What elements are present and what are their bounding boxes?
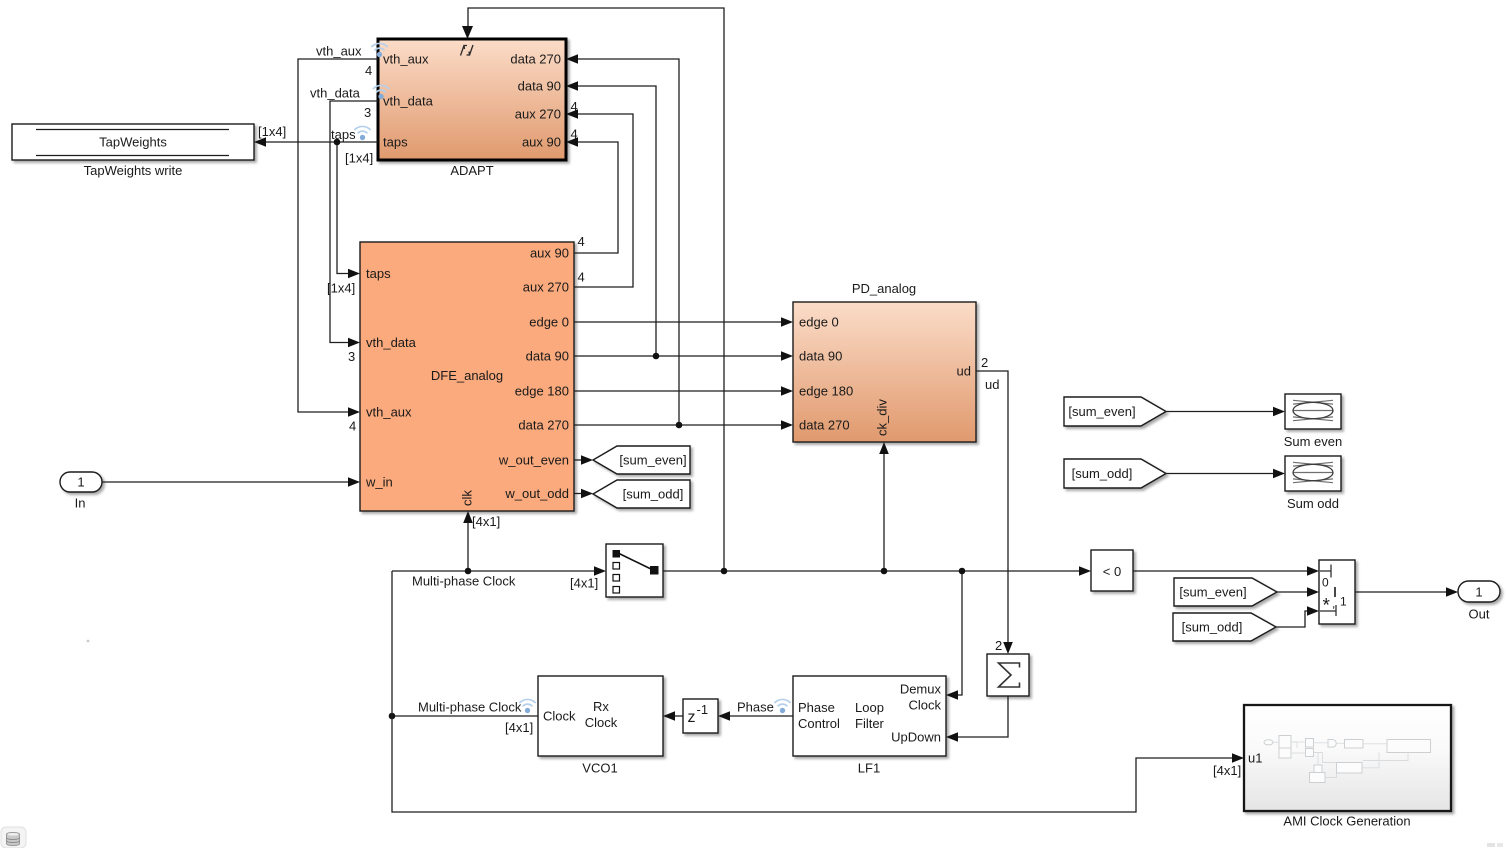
wire clk to DFE [463, 511, 473, 571]
svg-text:data 90: data 90 [526, 349, 569, 364]
svg-text:data 90: data 90 [799, 349, 842, 364]
scope Sum odd [1285, 456, 1341, 511]
wire ck_div to PD [879, 442, 889, 571]
svg-text:,: , [1332, 597, 1335, 611]
wire sum_odd to scope [1166, 469, 1285, 479]
label 4 at DFE aux 90 [578, 234, 585, 249]
svg-text:vth_data: vth_data [366, 335, 417, 350]
svg-text:data 90: data 90 [518, 79, 561, 94]
label 4 at ADAPT aux 90 [571, 127, 578, 142]
wire compare to multiport switch [1133, 566, 1319, 576]
svg-text:vth_data: vth_data [383, 94, 434, 109]
multiport switch block [1319, 560, 1355, 624]
junction clk-bus [465, 568, 472, 575]
label 2 at Sum input [995, 638, 1002, 653]
svg-text:aux 90: aux 90 [522, 135, 561, 150]
subsystem LF1 [793, 676, 946, 776]
label 3 near ADAPT [364, 105, 371, 120]
wire VCO1 clock output [392, 715, 538, 717]
svg-text:w_out_odd: w_out_odd [504, 486, 569, 501]
svg-text:[sum_odd]: [sum_odd] [623, 487, 684, 502]
svg-text:edge 180: edge 180 [515, 384, 569, 399]
svg-text:[1x4]: [1x4] [327, 281, 355, 296]
label Multi-phase Clock at bus [412, 574, 516, 589]
wire vth_data net [330, 101, 378, 347]
svg-text:3: 3 [348, 349, 355, 364]
svg-text:LF1: LF1 [858, 761, 880, 776]
svg-text:Clock: Clock [543, 709, 576, 724]
svg-text:1: 1 [1475, 585, 1482, 600]
svg-text:*: * [1323, 596, 1331, 617]
wire data 90 DFE to PD and ADAPT [566, 81, 793, 361]
subsystem VCO1 [538, 676, 663, 776]
label [4x1] at VCO1 output [505, 720, 533, 735]
hidden content badge (data store icon) [1, 827, 26, 848]
goto tag sum_odd [593, 480, 690, 508]
svg-text:Sum even: Sum even [1284, 434, 1343, 449]
svg-text:[4x1]: [4x1] [472, 514, 500, 529]
unit delay Z1 [683, 699, 718, 733]
label 4 at ADAPT aux 270 [571, 99, 578, 114]
svg-text:vth_aux: vth_aux [366, 405, 412, 420]
wire taps net (ADAPT taps out to TapWeights and DFE taps) [254, 137, 378, 278]
svg-text:aux 270: aux 270 [523, 280, 569, 295]
junction VCO1 output [389, 713, 396, 720]
svg-text:4: 4 [571, 99, 578, 114]
wire unit delay to VCO1 [663, 711, 683, 721]
svg-text:[sum_odd]: [sum_odd] [1072, 466, 1133, 481]
svg-text:data 270: data 270 [799, 418, 850, 433]
svg-text:ud: ud [957, 364, 971, 379]
outport Out [1458, 581, 1500, 622]
stray annotation dot [87, 640, 90, 643]
scope Sum even [1284, 394, 1343, 449]
svg-text:TapWeights: TapWeights [99, 135, 167, 150]
wire Sum to LF1 UpDown [946, 696, 1008, 742]
wire In to DFE w_in [102, 477, 360, 487]
compare block < 0 [1091, 550, 1133, 591]
svg-text:taps: taps [383, 135, 408, 150]
svg-text:w_in: w_in [365, 475, 393, 490]
svg-text:ck_div: ck_div [875, 399, 890, 436]
svg-text:taps: taps [366, 266, 391, 281]
wire w_out_even to goto [574, 455, 593, 465]
wire multiport to Out [1355, 587, 1458, 597]
svg-text:vth_aux: vth_aux [383, 52, 429, 67]
svg-text:ud: ud [985, 377, 999, 392]
wire aux 270 DFE to ADAPT [566, 109, 633, 287]
label [1x4] at DFE taps [327, 281, 355, 296]
svg-text:DFE_analog: DFE_analog [431, 368, 503, 383]
label [1x4] below taps wire [345, 151, 373, 166]
svg-text:0: 0 [1322, 576, 1329, 590]
manual switch block [606, 544, 663, 597]
label [1x4] at TapWeights [258, 124, 286, 139]
wire data 270 DFE to PD and ADAPT [566, 54, 793, 430]
sum block Sigma [987, 654, 1029, 696]
label 4 near DFE vth_aux [349, 419, 356, 434]
svg-text:taps: taps [331, 127, 356, 142]
svg-text:Out: Out [1469, 607, 1490, 622]
from tag sum_even lower [1174, 578, 1277, 606]
wire edge 0 DFE to PD [574, 317, 793, 327]
svg-text:PD_analog: PD_analog [852, 281, 916, 296]
label [4x1] at AMI input [1213, 763, 1241, 778]
data store write block TapWeights [12, 124, 254, 178]
svg-text:1: 1 [1340, 595, 1347, 609]
wire from sum_odd to multiport [1276, 606, 1319, 627]
svg-text:AMI Clock Generation: AMI Clock Generation [1283, 814, 1410, 829]
wire vth_aux net [298, 59, 378, 417]
svg-text:data 270: data 270 [510, 52, 561, 67]
svg-text:w_out_even: w_out_even [498, 453, 569, 468]
label 3 near DFE vth_data [348, 349, 355, 364]
label 4 near ADAPT vth_aux [365, 63, 372, 78]
svg-text:TapWeights write: TapWeights write [84, 163, 183, 178]
svg-text:[4x1]: [4x1] [570, 576, 598, 591]
svg-text:[sum_odd]: [sum_odd] [1182, 620, 1243, 635]
label ud under wire [985, 377, 999, 392]
signal label Multi-phase Clock at VCO1 [418, 699, 535, 714]
svg-text:Demux: Demux [900, 682, 942, 697]
label 4 at DFE aux 270 [578, 270, 585, 285]
svg-text:1: 1 [77, 475, 84, 490]
wire multi-phase clock bus [392, 566, 1091, 576]
junction data 90 [653, 353, 660, 360]
svg-text:aux 270: aux 270 [515, 107, 561, 122]
signal label taps [331, 126, 370, 142]
svg-text:Filter: Filter [855, 716, 885, 731]
from tag sum_odd upper [1064, 459, 1166, 488]
signal label vth_aux [316, 43, 387, 58]
svg-text:[sum_even]: [sum_even] [619, 453, 686, 468]
junction demux-bus [959, 568, 966, 575]
svg-text:[sum_even]: [sum_even] [1068, 404, 1135, 419]
svg-text:4: 4 [365, 63, 372, 78]
svg-text:[4x1]: [4x1] [1213, 763, 1241, 778]
subsystem PD_analog [793, 281, 976, 442]
svg-text:Multi-phase Clock: Multi-phase Clock [418, 700, 522, 715]
wire LF1 Phase to unit delay [718, 711, 793, 721]
junction taps node [334, 139, 341, 146]
signal label vth_data [310, 85, 389, 100]
svg-text:z: z [688, 709, 696, 726]
svg-text:4: 4 [578, 234, 585, 249]
svg-text:edge 0: edge 0 [529, 315, 569, 330]
svg-text:VCO1: VCO1 [582, 761, 617, 776]
svg-text:2: 2 [995, 638, 1002, 653]
svg-text:[4x1]: [4x1] [505, 720, 533, 735]
svg-text:3: 3 [364, 105, 371, 120]
svg-text:aux 90: aux 90 [530, 246, 569, 261]
signal label Phase [737, 699, 790, 714]
from tag sum_even upper [1064, 397, 1166, 426]
svg-text:Rx: Rx [593, 699, 609, 714]
svg-text:[1x4]: [1x4] [345, 151, 373, 166]
svg-text:2: 2 [981, 355, 988, 370]
wire aux 90 DFE to ADAPT [566, 137, 618, 253]
label [4x1] at DFE clk [472, 514, 500, 529]
svg-text:Clock: Clock [908, 698, 941, 713]
svg-text:Control: Control [798, 716, 840, 731]
wire clock loop to bus and AMI [392, 571, 1244, 812]
svg-text:4: 4 [578, 270, 585, 285]
label [4x1] at switch input [570, 576, 598, 591]
subsystem AMI Clock Generation [1244, 705, 1451, 829]
svg-text:ADAPT: ADAPT [450, 163, 493, 178]
junction data 270 [676, 422, 683, 429]
svg-text:data 270: data 270 [518, 418, 569, 433]
subsystem ADAPT [378, 39, 566, 178]
wire ud PD to Sum [976, 371, 1013, 654]
svg-text:Phase: Phase [737, 700, 774, 715]
subsystem DFE_analog [360, 242, 574, 511]
svg-text:UpDown: UpDown [891, 730, 941, 745]
wire edge 180 DFE to PD [574, 386, 793, 396]
wire from sum_even to multiport [1277, 587, 1319, 597]
wire bus to LF1 Demux Clock [946, 571, 962, 700]
svg-text:edge 180: edge 180 [799, 384, 853, 399]
svg-text:Clock: Clock [585, 715, 618, 730]
svg-text:[sum_even]: [sum_even] [1179, 585, 1246, 600]
svg-text:< 0: < 0 [1103, 564, 1121, 579]
goto tag sum_even [593, 446, 690, 474]
wire trigger to ADAPT [462, 8, 724, 571]
from tag sum_odd lower [1173, 613, 1276, 641]
svg-text:4: 4 [571, 127, 578, 142]
svg-text:u1: u1 [1248, 751, 1262, 766]
svg-text:4: 4 [349, 419, 356, 434]
svg-text:Multi-phase Clock: Multi-phase Clock [412, 574, 516, 589]
inport In [60, 472, 102, 511]
wire w_out_odd to goto [574, 489, 593, 499]
svg-text:-1: -1 [697, 702, 709, 717]
svg-text:clk: clk [460, 490, 475, 506]
svg-text:edge 0: edge 0 [799, 315, 839, 330]
wire sum_even to scope [1166, 407, 1285, 417]
label 2 at PD ud [981, 355, 988, 370]
svg-text:vth_data: vth_data [310, 86, 361, 101]
svg-text:vth_aux: vth_aux [316, 44, 362, 59]
svg-text:Phase: Phase [798, 700, 835, 715]
svg-text:Sum odd: Sum odd [1287, 496, 1339, 511]
corner marks [1487, 843, 1503, 847]
svg-text:In: In [75, 496, 86, 511]
junction ck_div-bus [881, 568, 888, 575]
junction trigger-bus [721, 568, 728, 575]
svg-text:[1x4]: [1x4] [258, 124, 286, 139]
svg-text:Loop: Loop [855, 700, 884, 715]
